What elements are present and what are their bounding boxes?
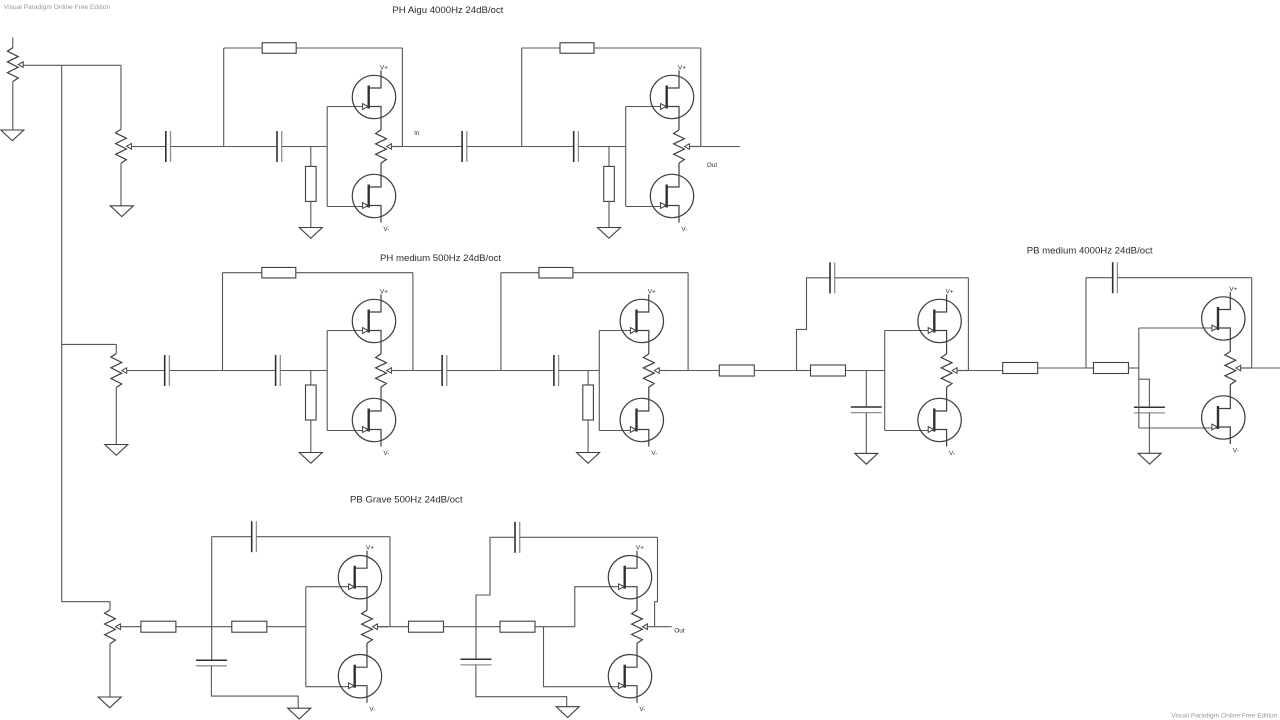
wire feedback left vertical stage1 bbox=[223, 48, 225, 147]
potentiometer P1 bbox=[116, 129, 132, 163]
resistor R2 (shunt to ground) bbox=[306, 166, 317, 201]
wire R14 to gate bus 7 bbox=[267, 626, 306, 628]
transistor Q5b (lower JFET) bbox=[918, 387, 961, 447]
wire Q3 wiper output bbox=[391, 370, 402, 372]
resistor R8 (shunt to ground) bbox=[583, 385, 594, 420]
wire P3 bottom to ground bbox=[109, 644, 111, 697]
svg-text:V-: V- bbox=[949, 450, 955, 457]
resistor R5 (feedback) bbox=[262, 267, 296, 278]
svg-text:V+: V+ bbox=[648, 289, 656, 296]
wire R12 to gate bus 6 bbox=[1128, 367, 1139, 369]
wire Q7 gate bus vertical bbox=[305, 587, 307, 687]
wire feedback cap left stage6 bbox=[1086, 277, 1113, 279]
svg-text:V-: V- bbox=[383, 450, 389, 457]
wire feedback cap left riser stage6 bbox=[1085, 278, 1087, 368]
potentiometer Q5p between JFET sources bbox=[941, 354, 957, 387]
wire feedback right vertical stage5 bbox=[967, 278, 969, 371]
resistor R1 (feedback) bbox=[262, 43, 296, 54]
capacitor C9 (feedback) bbox=[830, 262, 835, 293]
wire R4 to ground bbox=[608, 201, 610, 227]
wire C2 to gate bus bbox=[282, 146, 328, 148]
transistor Q6b (lower JFET) bbox=[1202, 385, 1245, 445]
wire Q6 gate bus to lower gate bbox=[1139, 427, 1218, 429]
wire Q6 output to feedback node bbox=[1241, 367, 1252, 369]
wire R6 to ground bbox=[310, 420, 312, 453]
capacitor C14 (shunt) bbox=[196, 660, 227, 666]
transistor Q3a (upper JFET) bbox=[352, 294, 395, 354]
wire lower gate branch stage8 bbox=[544, 627, 624, 687]
wire feedback top right stage2 bbox=[594, 47, 701, 49]
wire P2 wiper to C5 bbox=[127, 370, 165, 372]
wire R9 to node C1f bbox=[754, 370, 796, 372]
wire Q5 wiper output bbox=[957, 370, 968, 372]
wire P1 wiper to C1 bbox=[131, 146, 165, 148]
transistor Q8b (lower JFET) bbox=[608, 643, 651, 703]
wire R15 to node D2 bbox=[443, 626, 500, 628]
transistor Q4a (upper JFET) bbox=[620, 294, 663, 354]
wire Q6 gate bus to upper gate bbox=[1139, 327, 1218, 329]
wire down to pot P1 bbox=[120, 65, 122, 129]
transistor Q1b (lower JFET) bbox=[352, 163, 395, 223]
capacitor C2 bbox=[277, 131, 282, 162]
wire shunt junction down stage3 bbox=[310, 371, 312, 386]
wire C16 to ground bbox=[476, 665, 567, 707]
wire P0 wiper to bus and PH Aigu input bbox=[23, 64, 121, 66]
capacitor C8 bbox=[554, 355, 559, 386]
ground below P2 bbox=[105, 445, 128, 456]
resistor R3 (feedback) bbox=[560, 43, 594, 54]
svg-text:V-: V- bbox=[1233, 448, 1239, 455]
wire shunt junction down stage2 bbox=[608, 147, 610, 167]
wire node to R10 bbox=[797, 370, 812, 372]
wire R13 to node D1 bbox=[175, 626, 232, 628]
wire P3 wiper to R13 bbox=[120, 626, 141, 628]
wire Q7 wiper output bbox=[377, 626, 388, 628]
potentiometer Q3p between JFET sources bbox=[376, 354, 392, 387]
wire R16 to gate branches bbox=[535, 626, 575, 628]
wire Q4 wiper output bbox=[659, 370, 670, 372]
wire Q1 gate bus to upper gate bbox=[327, 106, 368, 108]
transistor Q6a (upper JFET) bbox=[1202, 292, 1245, 352]
wire bus to pot P3 bbox=[62, 602, 110, 610]
wire Q5 gate bus to lower gate bbox=[885, 430, 934, 432]
potentiometer P2 bbox=[111, 354, 127, 388]
wire Q6 wiper output bbox=[1241, 367, 1252, 369]
wire feedback top right stage4 bbox=[573, 272, 688, 274]
wire main bus vertical bbox=[61, 65, 63, 601]
svg-text:V-: V- bbox=[639, 706, 645, 713]
resistor R7 (feedback) bbox=[539, 267, 573, 278]
wire feedback right vertical stage4 bbox=[687, 273, 689, 371]
capacitor C13 (feedback) bbox=[252, 521, 257, 552]
wire shunt cap jog stage6 bbox=[1139, 379, 1150, 407]
wire P1 bottom to ground bbox=[120, 163, 122, 206]
wire Q2 output to feedback node bbox=[689, 146, 700, 148]
capacitor C3 bbox=[462, 131, 467, 162]
ground below R4 bbox=[598, 228, 621, 239]
ground below C10 bbox=[855, 453, 878, 464]
svg-text:V+: V+ bbox=[366, 545, 374, 552]
capacitor C16 (shunt) bbox=[460, 659, 491, 665]
wire feedback top left stage2 bbox=[522, 47, 560, 49]
ground below C12 bbox=[1138, 453, 1161, 464]
resistor R15 (series) bbox=[409, 621, 444, 632]
wire Q3 gate bus to lower gate bbox=[327, 430, 368, 432]
wire feedback right vertical stage7 bbox=[389, 537, 391, 627]
capacitor C15 (feedback) bbox=[515, 522, 520, 553]
wire Q4 output to feedback node bbox=[659, 370, 688, 372]
wire pot P0 top stub bbox=[12, 38, 14, 48]
potentiometer Q6p between JFET sources bbox=[1225, 351, 1241, 384]
wire Q3 output to feedback node bbox=[391, 370, 413, 372]
wire Q2 gate bus vertical bbox=[625, 107, 627, 207]
resistor R14 (series) bbox=[232, 621, 267, 632]
capacitor C12 (shunt) bbox=[1134, 407, 1165, 413]
wire Q1 gate bus to lower gate bbox=[327, 206, 368, 208]
svg-text:PB medium 4000Hz 24dB/oct: PB medium 4000Hz 24dB/oct bbox=[1027, 246, 1153, 257]
svg-text:V+: V+ bbox=[1229, 286, 1237, 293]
wire PH medium out to R9 bbox=[688, 370, 719, 372]
capacitor C11 (feedback) bbox=[1113, 262, 1118, 293]
wire feedback riser stage7 bbox=[211, 537, 213, 627]
wire C10 to ground bbox=[865, 413, 867, 454]
resistor R11 (series) bbox=[1003, 363, 1038, 374]
wire stage3 output to C7 bbox=[413, 370, 442, 372]
svg-text:V-: V- bbox=[681, 226, 687, 233]
wire shunt cap drop stage5 bbox=[865, 371, 867, 408]
wire feedback right vertical stage6 bbox=[1251, 278, 1253, 368]
wire feedback right vertical stage8 bbox=[655, 537, 658, 626]
transistor Q7b (lower JFET) bbox=[338, 643, 381, 703]
capacitor C5 bbox=[165, 355, 170, 386]
potentiometer Q1p between JFET sources bbox=[376, 130, 392, 163]
ground right of C16 bbox=[556, 707, 579, 718]
wire Q2 gate bus to lower gate bbox=[626, 206, 666, 208]
potentiometer Q7p between JFET sources bbox=[362, 610, 378, 643]
wire feedback top left stage3 bbox=[223, 272, 262, 274]
transistor Q7a (upper JFET) bbox=[338, 551, 381, 611]
svg-text:V-: V- bbox=[651, 450, 657, 457]
resistor R16 (series) bbox=[500, 621, 535, 632]
wire Q1 output to feedback node bbox=[391, 146, 402, 148]
wire feedback right vertical stage1 bbox=[401, 48, 403, 147]
wire shunt junction down stage1 bbox=[310, 147, 312, 167]
wire R2 to ground bbox=[310, 201, 312, 227]
wire C3 to C4 (node A2) bbox=[467, 146, 574, 148]
wire feedback left vertical stage4 bbox=[500, 273, 502, 371]
svg-text:V+: V+ bbox=[946, 289, 954, 296]
transistor Q3b (lower JFET) bbox=[352, 387, 395, 447]
wire C6 to gate bus 3 bbox=[280, 370, 327, 372]
wire In node to C3 bbox=[402, 146, 462, 148]
wire C5 to C6 (node B1) bbox=[169, 370, 275, 372]
potentiometer P0 (input level) bbox=[7, 48, 23, 82]
svg-text:V+: V+ bbox=[380, 289, 388, 296]
svg-text:PH medium 500Hz 24dB/oct: PH medium 500Hz 24dB/oct bbox=[380, 253, 501, 264]
wire P2 bottom to ground bbox=[115, 388, 117, 445]
wire Q2 gate bus to upper gate bbox=[626, 106, 666, 108]
ground below P3 bbox=[98, 697, 121, 708]
transistor Q1a (upper JFET) bbox=[352, 70, 395, 130]
resistor R6 (shunt to ground) bbox=[306, 385, 317, 420]
wire C14 to ground bbox=[211, 666, 298, 708]
capacitor C7 bbox=[442, 355, 447, 386]
wire C1 to C2 (node A1) bbox=[171, 146, 278, 148]
wire feedback cap left stage7 bbox=[212, 536, 252, 538]
ground below R6 bbox=[299, 453, 322, 464]
wire PB medium output bbox=[1252, 367, 1280, 369]
svg-text:V+: V+ bbox=[380, 65, 388, 72]
wire Q4 gate bus vertical bbox=[598, 331, 600, 431]
wire bus branch to PH medium row bbox=[62, 343, 117, 345]
wire upper gate branch stage8 bbox=[575, 587, 623, 627]
wire feedback cap left riser stage5 bbox=[797, 278, 831, 371]
wire C8 to gate bus 4 bbox=[559, 370, 600, 372]
wire Q5 gate bus vertical bbox=[884, 331, 886, 431]
wire feedback top left stage1 bbox=[224, 47, 263, 49]
capacitor C4 bbox=[574, 131, 579, 162]
wire Q7 gate bus to upper gate bbox=[306, 586, 354, 588]
svg-text:V+: V+ bbox=[678, 65, 686, 72]
transistor Q2a (upper JFET) bbox=[650, 70, 693, 130]
wire stage7 output to R15 bbox=[390, 626, 409, 628]
potentiometer P3 bbox=[105, 610, 121, 644]
wire Q6 gate bus vertical bbox=[1138, 328, 1140, 428]
wire feedback cap right stage8 bbox=[520, 536, 658, 538]
wire Q1 gate bus vertical bbox=[326, 107, 328, 207]
wire R11 to node C2f bbox=[1038, 367, 1086, 369]
wire Q7 output to feedback node bbox=[377, 626, 390, 628]
wire feedback cap right stage5 bbox=[835, 277, 969, 279]
wire shunt junction down stage4 bbox=[587, 371, 589, 386]
resistor R12 (series) bbox=[1094, 363, 1129, 374]
wire Q1 wiper output bbox=[391, 146, 402, 148]
wire feedback cap right stage6 bbox=[1117, 277, 1251, 279]
capacitor C10 (shunt) bbox=[851, 407, 882, 413]
wire feedback left vertical stage2 bbox=[521, 48, 523, 147]
svg-text:Visual Paradigm Online Free Ed: Visual Paradigm Online Free Edition bbox=[1171, 713, 1277, 720]
transistor Q5a (upper JFET) bbox=[918, 294, 961, 354]
wire Q7 gate bus to lower gate bbox=[306, 686, 354, 688]
wire R8 to ground bbox=[587, 420, 589, 453]
transistor Q4b (lower JFET) bbox=[620, 387, 663, 447]
wire C7 to C8 (node B2) bbox=[447, 370, 554, 372]
potentiometer Q8p between JFET sources bbox=[632, 610, 648, 643]
resistor R4 (shunt to ground) bbox=[604, 166, 615, 201]
wire Q5 output to feedback node bbox=[957, 370, 968, 372]
resistor R9 (series) bbox=[719, 365, 754, 376]
ground below R2 bbox=[299, 228, 322, 239]
wire feedback top right stage3 bbox=[296, 272, 413, 274]
svg-text:Out: Out bbox=[674, 628, 685, 635]
svg-text:PH Aigu 4000Hz 24dB/oct: PH Aigu 4000Hz 24dB/oct bbox=[392, 5, 503, 16]
transistor Q8a (upper JFET) bbox=[608, 551, 651, 611]
wire feedback right vertical stage2 bbox=[700, 48, 702, 147]
svg-text:In: In bbox=[414, 130, 420, 137]
wire feedback right vertical stage3 bbox=[412, 273, 414, 371]
wire C12 to ground bbox=[1148, 413, 1150, 453]
ground below P1 bbox=[110, 206, 133, 217]
svg-text:Out: Out bbox=[707, 162, 718, 169]
svg-text:Visual Paradigm Online Free Ed: Visual Paradigm Online Free Edition bbox=[4, 4, 110, 11]
svg-text:V+: V+ bbox=[636, 545, 644, 552]
wire Q4 gate bus to lower gate bbox=[599, 430, 636, 432]
wire down to pot P2 bbox=[115, 344, 117, 353]
wire feedback top right stage1 bbox=[296, 47, 402, 49]
wire stage5 output to R11 bbox=[968, 370, 1002, 372]
capacitor C1 bbox=[166, 131, 171, 162]
ground right of C14 bbox=[288, 708, 311, 719]
wire PH Aigu output bbox=[701, 146, 740, 148]
wire shunt cap drop stage7 bbox=[211, 627, 213, 661]
wire Q3 gate bus vertical bbox=[326, 331, 328, 431]
resistor R13 (series) bbox=[141, 621, 176, 632]
svg-text:V-: V- bbox=[383, 226, 389, 233]
wire feedback left vertical stage3 bbox=[222, 273, 224, 371]
wire feedback riser stage8 bbox=[476, 537, 515, 659]
resistor R10 (series) bbox=[811, 365, 846, 376]
wire Q2 wiper output bbox=[689, 146, 700, 148]
capacitor C6 bbox=[276, 355, 281, 386]
potentiometer Q2p between JFET sources bbox=[674, 130, 690, 163]
wire Q3 gate bus to upper gate bbox=[327, 330, 368, 332]
ground below R8 bbox=[577, 453, 600, 464]
wire C4 to gate bus 2 bbox=[578, 146, 625, 148]
ground below P0 bbox=[1, 130, 24, 141]
wire feedback cap right stage7 bbox=[256, 536, 390, 538]
wire Q4 gate bus to upper gate bbox=[599, 330, 636, 332]
wire node to R12 bbox=[1086, 367, 1094, 369]
wire P0 bottom to ground bbox=[12, 82, 14, 130]
wire Q8 wiper output bbox=[647, 626, 671, 628]
svg-text:PB Grave 500Hz 24dB/oct: PB Grave 500Hz 24dB/oct bbox=[350, 495, 463, 506]
potentiometer Q4p between JFET sources bbox=[643, 354, 659, 387]
wire feedback top left stage4 bbox=[501, 272, 539, 274]
svg-text:V-: V- bbox=[369, 706, 375, 713]
wire Q5 gate bus to upper gate bbox=[885, 330, 934, 332]
wire R10 to gate bus 5 bbox=[846, 370, 885, 372]
transistor Q2b (lower JFET) bbox=[650, 163, 693, 223]
